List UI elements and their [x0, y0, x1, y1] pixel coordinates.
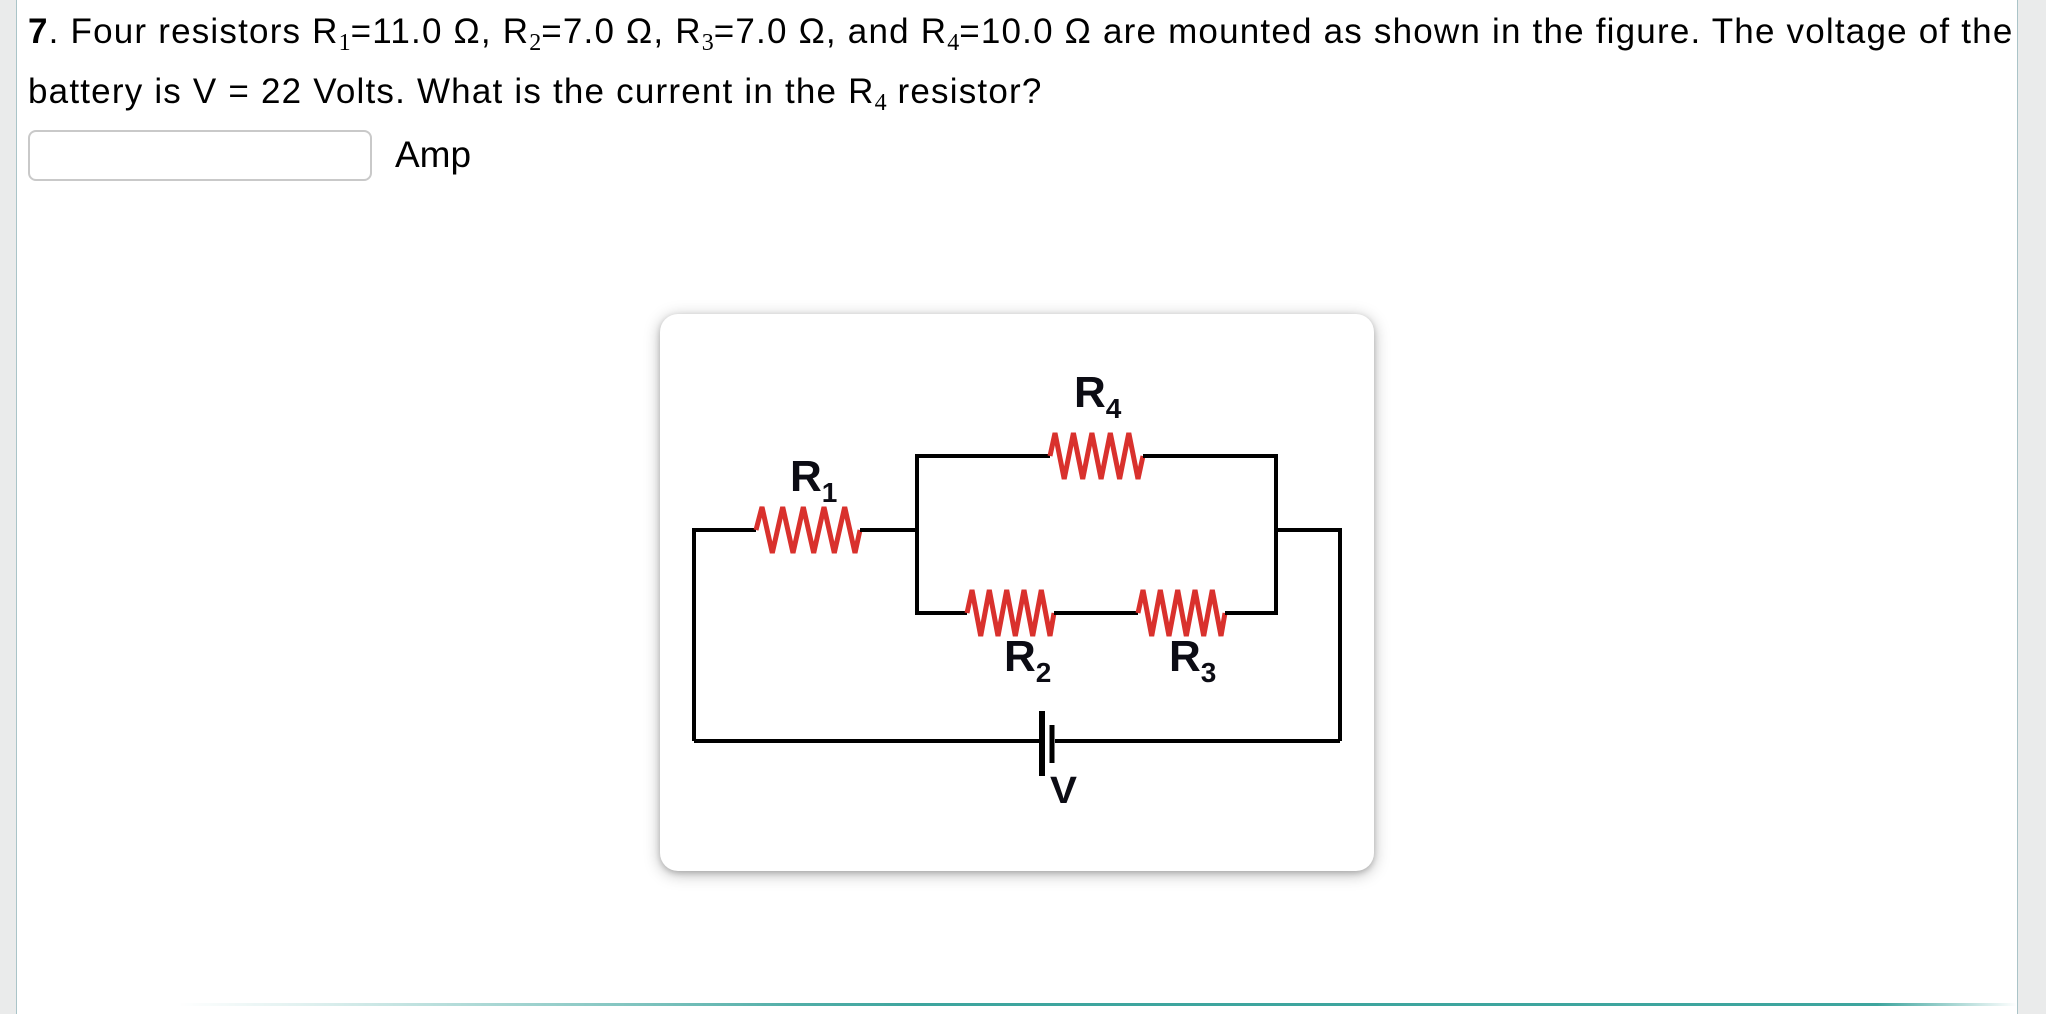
resistor R4 zigzag: [1050, 433, 1143, 479]
wire: inner box left vertical: [915, 454, 919, 615]
resistor R2 zigzag: [967, 590, 1054, 636]
teal divider line at bottom: [18, 1003, 2017, 1006]
wire: top branch right segment: [1143, 454, 1278, 458]
svg-text:R2: R2: [1004, 632, 1051, 688]
figure card: [660, 314, 1374, 871]
wire: node to right outer riser: [1276, 528, 1342, 532]
battery V long plate: [1039, 711, 1045, 776]
wire: left vertical (battery left riser): [692, 530, 696, 741]
left gutter strip: [0, 0, 17, 1014]
resistor R3 zigzag: [1138, 590, 1225, 636]
wire: bottom right segment from battery: [1055, 739, 1340, 743]
right gutter strip: [2017, 0, 2046, 1014]
wire: middle branch left segment: [917, 611, 967, 615]
Amp label: [395, 136, 471, 173]
wire: bottom left segment to battery: [694, 739, 1039, 743]
svg-text:V: V: [1050, 770, 1078, 812]
wire: inner box right vertical: [1274, 454, 1278, 615]
wire: right outer vertical: [1338, 530, 1342, 741]
battery V short plate: [1050, 725, 1055, 763]
question text: [28, 2, 2014, 121]
wire: R1 branch left segment: [692, 528, 756, 532]
wire: top branch left segment: [915, 454, 1050, 458]
wire: middle branch right segment: [1225, 611, 1276, 615]
svg-text:R1: R1: [790, 452, 837, 508]
svg-text:R3: R3: [1169, 632, 1216, 688]
answer input box: [28, 130, 372, 181]
wire: R1 to inner box: [860, 528, 919, 532]
resistor R1 zigzag: [756, 507, 860, 553]
svg-text:R4: R4: [1074, 368, 1122, 424]
wire: between R2 and R3: [1054, 611, 1138, 615]
